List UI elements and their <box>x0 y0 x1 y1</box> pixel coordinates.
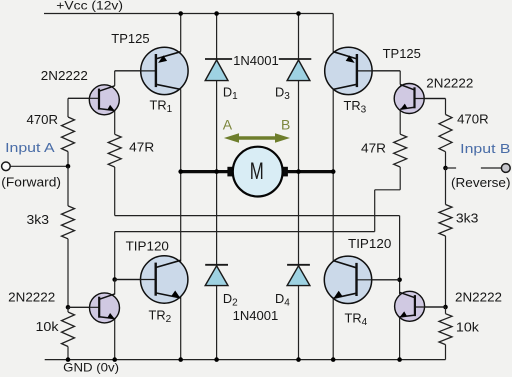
svg-text:470R: 470R <box>457 112 489 127</box>
svg-text:TP125: TP125 <box>383 46 421 61</box>
node TR2 base junction <box>112 277 117 282</box>
wire TR3 base <box>357 70 400 72</box>
node Q2 base junction <box>66 305 71 310</box>
wire Q2 base horizontal <box>68 306 99 308</box>
motor M1 brush left <box>227 167 233 177</box>
wire Input B stub <box>446 167 457 169</box>
wire Q3 emitter to 47R <box>399 109 401 134</box>
wire jog down <box>374 190 376 232</box>
wire Q4 emitter to GND <box>399 317 401 360</box>
node Q2 emitter at GND <box>112 357 117 362</box>
wire Q2 emitter to GND <box>114 318 116 359</box>
motor M1 brush right <box>283 167 288 177</box>
node motor wire D1 junction <box>214 169 219 174</box>
wire cross B down to TR2 base <box>114 232 116 280</box>
resistor R6 470R right <box>439 115 452 152</box>
svg-text:M: M <box>250 158 264 185</box>
transistor TR3 TP125 <box>325 47 372 94</box>
node TR2 emitter at GND <box>178 357 183 362</box>
wire 10k right stems <box>445 307 447 314</box>
wire +Vcc top rail <box>44 13 333 15</box>
terminal Input B <box>501 164 510 173</box>
wire D3 D4 column <box>298 14 300 360</box>
svg-text:TIP120: TIP120 <box>126 238 169 253</box>
wire 470R right bottom stem <box>445 152 447 168</box>
wire GND bottom rail <box>45 359 446 361</box>
node D4 at GND <box>296 357 301 362</box>
wire cross B horizontal <box>115 231 375 233</box>
transistor Q1 2N2222 upper left <box>89 85 119 115</box>
svg-text:10k: 10k <box>36 319 60 334</box>
node D1 at rail <box>214 11 219 16</box>
resistor R3 10k left <box>62 312 75 347</box>
svg-text:GND (0v): GND (0v) <box>63 361 119 374</box>
wire Q2 collector stub <box>114 280 116 295</box>
wire TR4 base horizontal <box>357 279 400 281</box>
resistor R1 470R left <box>62 117 75 152</box>
wire 3k3 left stems <box>67 166 69 206</box>
node motor wire left end <box>178 169 183 174</box>
svg-text:(Reverse): (Reverse) <box>451 175 511 190</box>
resistor R8 10k right <box>439 314 452 345</box>
node Q4 emitter at GND <box>397 357 402 362</box>
resistor R5 47R right <box>394 134 407 167</box>
node TR4 emitter at GND <box>331 357 336 362</box>
wire TR1 emitter to rail <box>180 14 182 52</box>
node Q4 base junction <box>443 305 448 310</box>
resistor R2 3k3 left <box>62 206 75 239</box>
node motor wire right end <box>331 169 336 174</box>
wire TR1 collector to motor <box>180 89 182 171</box>
node 10k left at GND <box>66 357 71 362</box>
wire TR2 base horizontal <box>115 279 156 281</box>
node D column at GND <box>214 357 219 362</box>
wire cross A down to TR4 base <box>399 216 401 295</box>
wire D1 D2 column <box>216 14 218 360</box>
svg-text:3k3: 3k3 <box>456 210 479 225</box>
transistor TR4 TIP120 <box>324 256 371 303</box>
resistor R7 3k3 right <box>439 205 452 237</box>
diode D2 <box>205 266 228 286</box>
wire 47R right to jog <box>399 167 401 190</box>
transistor TR1 TP125 <box>141 47 188 94</box>
svg-text:2N2222: 2N2222 <box>8 289 55 304</box>
wire Q3 base horizontal <box>414 98 445 100</box>
wire motor left to TR2 collector <box>180 172 182 262</box>
svg-text:TIP120: TIP120 <box>348 236 391 251</box>
wire motor thick right <box>287 170 333 173</box>
wire motor right to TR4 collector <box>332 172 334 262</box>
svg-text:10k: 10k <box>456 320 480 335</box>
terminal Input A <box>2 162 11 171</box>
svg-text:+Vcc (12v): +Vcc (12v) <box>56 1 123 13</box>
svg-text:47R: 47R <box>129 140 154 155</box>
svg-text:Input A: Input A <box>5 140 55 155</box>
svg-text:2N2222: 2N2222 <box>41 68 88 83</box>
wire motor thick left <box>181 170 229 173</box>
svg-text:47R: 47R <box>361 141 386 156</box>
svg-text:A: A <box>223 116 233 132</box>
diode D1 <box>205 60 228 81</box>
transistor TR2 TIP120 <box>141 256 188 303</box>
wire TR3 emitter to rail corner <box>332 14 334 53</box>
wire 47R left to cross A <box>114 167 116 216</box>
direction arrow A-B <box>224 133 290 143</box>
svg-text:3k3: 3k3 <box>27 212 50 227</box>
wire Q1 base horizontal <box>68 97 99 99</box>
transistor Q4 2N2222 lower right <box>395 291 425 321</box>
node TR4 base junction <box>397 278 402 283</box>
diode D3 <box>287 60 310 81</box>
svg-text:1N4001: 1N4001 <box>233 308 279 323</box>
resistor R4 47R left <box>108 134 121 167</box>
svg-text:(Forward): (Forward) <box>1 175 61 190</box>
svg-text:TP125: TP125 <box>111 31 149 46</box>
svg-text:1N4001: 1N4001 <box>233 53 279 68</box>
wire TR3 collector to motor <box>332 89 334 171</box>
node Input A junction <box>66 164 71 169</box>
wire Input B terminal lead <box>481 167 501 169</box>
wire 3k3 right stems <box>445 168 447 205</box>
wire cross A horizontal <box>115 215 400 217</box>
wire Q1 emitter to 47R <box>114 111 116 135</box>
wire TR1 base <box>115 70 156 72</box>
wire TR2 emitter to GND <box>180 296 182 360</box>
node Input B junction <box>443 166 448 171</box>
wire 10k left stems <box>67 307 69 312</box>
diode D4 <box>287 266 310 286</box>
svg-text:2N2222: 2N2222 <box>455 290 502 305</box>
node TR1 emitter at rail <box>178 11 183 16</box>
svg-text:2N2222: 2N2222 <box>426 76 473 91</box>
wire Input A to junction <box>10 165 68 167</box>
wire Q4 base horizontal <box>415 306 446 308</box>
wire TR4 emitter to GND <box>332 296 334 360</box>
node motor wire D3 junction <box>296 169 301 174</box>
svg-text:470R: 470R <box>27 112 59 127</box>
transistor Q2 2N2222 lower left <box>90 293 120 323</box>
wire 470R top stem / to Q1 base corner <box>67 98 69 117</box>
transistor Q3 2N2222 upper right <box>394 84 424 114</box>
motor M1 <box>233 147 283 197</box>
svg-text:Input B: Input B <box>460 141 510 156</box>
node D3 at rail <box>296 11 301 16</box>
svg-text:B: B <box>281 116 290 132</box>
